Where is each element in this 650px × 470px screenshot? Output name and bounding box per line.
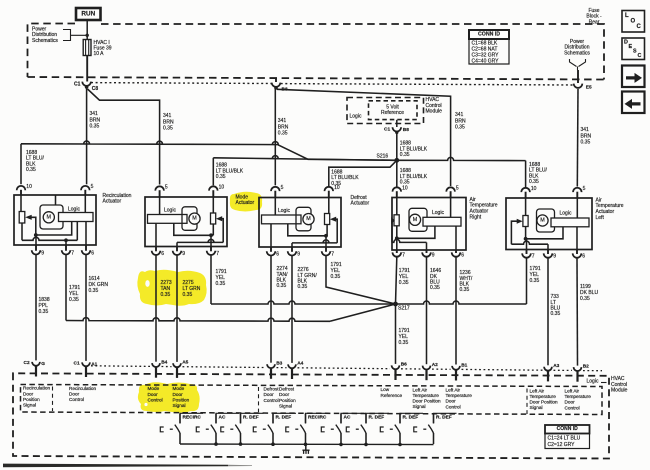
svg-text:Temperature: Temperature xyxy=(565,394,592,399)
svg-text:0.35: 0.35 xyxy=(216,174,226,180)
air temp right pin 10 top xyxy=(393,186,408,198)
svg-text:Logic: Logic xyxy=(587,379,599,385)
label recirculation door control xyxy=(69,386,96,402)
svg-text:Control: Control xyxy=(69,397,84,402)
svg-text:Logic: Logic xyxy=(560,211,572,217)
mode actuator box xyxy=(145,197,227,247)
CONN ID table (fuse block) xyxy=(469,30,509,65)
connector A2 xyxy=(423,362,439,380)
air temp left pin 6 bottom xyxy=(573,250,586,260)
svg-text:Door: Door xyxy=(565,400,576,405)
wire 1791 YEL mode pin7 to S217 (hops) xyxy=(211,256,396,305)
air temp left potentiometer xyxy=(523,198,528,227)
svg-text:BRN: BRN xyxy=(581,133,592,139)
air temp left logic bar xyxy=(551,211,589,227)
svg-text:Door Position: Door Position xyxy=(530,400,559,405)
inner dashed signal-label box xyxy=(21,385,603,415)
label Logic (bottom module) xyxy=(587,379,607,385)
defrost pot low line to logic and pin 7 xyxy=(288,224,328,247)
svg-text:Actuator: Actuator xyxy=(103,199,122,205)
svg-text:9: 9 xyxy=(553,254,556,260)
label 341 BRN 0.35 (recirc) xyxy=(90,111,101,129)
label defrost door position signal xyxy=(279,387,296,409)
svg-text:10: 10 xyxy=(531,186,537,192)
svg-text:R. DEF: R. DEF xyxy=(243,415,259,421)
wire 1688 C1|B8 to S216 xyxy=(396,132,398,160)
label 1791 YEL 0.35 (S217-B6) xyxy=(399,328,410,346)
top dotted connector line (fuse block face) xyxy=(91,83,573,85)
air temp left pin 10 top xyxy=(521,186,536,198)
air temp left motor M xyxy=(537,209,555,232)
recirc actuator pin 5 top xyxy=(81,184,94,195)
label 1791 YEL 0.35 (air temp left) xyxy=(530,266,541,284)
svg-text:Signal: Signal xyxy=(413,404,426,409)
air temp left pin 9 bottom xyxy=(544,250,557,260)
label Recirculation Actuator xyxy=(103,193,132,205)
air temp left control line logic to pin 6 xyxy=(576,227,578,250)
label left air temperature door control (right act) xyxy=(446,387,473,409)
svg-text:C8: C8 xyxy=(92,86,99,92)
air temp right control line logic to pin 6 xyxy=(455,226,457,250)
label 1838 PPL 0.35 xyxy=(39,297,50,315)
wire 1688 S216 to air temp left pin 10 (hop at 341) xyxy=(397,157,526,187)
svg-text:341: 341 xyxy=(455,112,464,118)
svg-text:6: 6 xyxy=(276,252,279,258)
scan artifact bar (bottom left) xyxy=(3,464,252,468)
connector B3 xyxy=(267,361,283,379)
svg-text:0.35: 0.35 xyxy=(90,124,100,130)
svg-text:9: 9 xyxy=(41,251,44,257)
air temp left pot low line to logic and pin 7 xyxy=(524,227,563,250)
svg-text:7: 7 xyxy=(402,253,405,259)
svg-text:Schematics: Schematics xyxy=(564,50,590,56)
HVAC control module outer dashed box (bottom) xyxy=(13,373,609,458)
defrost actuator pin 6 bottom xyxy=(267,247,280,258)
air temp actuator right box xyxy=(392,198,466,251)
connector C2|G xyxy=(24,360,46,376)
defrost actuator box xyxy=(259,198,341,248)
svg-text:A1: A1 xyxy=(91,361,97,367)
air temp left wiper line to pin 9 (hop over pin7 wire) xyxy=(511,241,548,249)
label 1688 LT BLU/BLK 0.35 (air temp right) xyxy=(400,168,428,185)
svg-text:Position: Position xyxy=(173,398,190,403)
label Defrost Actuator xyxy=(351,195,370,207)
air temp left wire pin5 to logic xyxy=(576,198,578,218)
svg-text:Logic: Logic xyxy=(68,207,80,213)
recirc actuator pin 6 bottom xyxy=(82,245,95,257)
svg-text:9: 9 xyxy=(432,253,435,259)
defrost actuator pin 9 bottom xyxy=(288,247,301,258)
label 341 BRN 0.35 (air temp right) xyxy=(455,112,466,130)
label left air temperature door control (left act) xyxy=(565,388,592,410)
svg-text:7: 7 xyxy=(331,252,334,258)
svg-text:Door: Door xyxy=(148,392,159,397)
label 2275 LT GRN 0.35 xyxy=(183,280,201,298)
svg-text:R. DEF: R. DEF xyxy=(276,415,292,421)
RUN box xyxy=(76,8,101,20)
label 1791 YEL 0.35 (recirc) xyxy=(69,285,80,303)
air temp right wire pin5 to logic xyxy=(450,198,452,218)
switch common bus xyxy=(180,442,434,446)
svg-text:5: 5 xyxy=(281,185,284,191)
svg-text:R. DEF: R. DEF xyxy=(369,415,385,421)
air temp right motor M xyxy=(409,208,427,231)
air temp right pin 7 bottom xyxy=(393,250,406,259)
svg-text:Door: Door xyxy=(23,391,34,396)
svg-text:C2: C2 xyxy=(24,360,30,366)
mode wiper signal line to pin 9 (hop over pin7 wire) xyxy=(177,239,223,246)
node S217 xyxy=(393,302,410,312)
svg-text:10: 10 xyxy=(402,186,408,192)
label defrost door control xyxy=(264,387,280,403)
svg-text:Reference: Reference xyxy=(381,110,404,116)
mode potentiometer xyxy=(211,197,216,224)
svg-text:0.35: 0.35 xyxy=(580,296,590,302)
highlight over Mode Door Control / Position Signal labels xyxy=(138,382,200,413)
svg-text:L: L xyxy=(625,13,629,19)
switch R. DEF at x=400 xyxy=(380,413,423,444)
label Power Distribution Schematics (left) xyxy=(32,27,89,44)
connector B8 (fuse block) xyxy=(272,79,288,93)
svg-text:Recirculation: Recirculation xyxy=(69,386,96,391)
S217 branch to air temp left pin7 (hops) xyxy=(396,258,527,304)
connector B6 xyxy=(392,362,408,380)
bottom connector dotted line xyxy=(91,366,602,371)
recirc actuator pin 9 bottom xyxy=(32,245,45,257)
air temp right wiper line to pin 9 (hop over pin7 wire) xyxy=(392,239,427,250)
svg-text:5: 5 xyxy=(91,184,94,190)
wire 1646 DK BLU pin9 to A2 xyxy=(426,257,428,364)
recirc actuator pin 7 bottom xyxy=(62,245,75,257)
svg-text:E5: E5 xyxy=(586,85,592,91)
svg-text:M: M xyxy=(192,216,197,222)
connector E5 xyxy=(574,70,592,91)
label 1791 YEL 0.35 (defrost) xyxy=(331,262,342,280)
recirc motor M xyxy=(40,195,63,229)
svg-text:0.35: 0.35 xyxy=(183,292,193,298)
svg-text:Mode: Mode xyxy=(173,386,185,391)
svg-text:R. DEF: R. DEF xyxy=(436,415,452,421)
svg-text:Rear: Rear xyxy=(589,19,600,25)
switch R. DEF at x=366 xyxy=(346,413,389,444)
wire 1791 YEL defrost pin7 diagonal to S217 xyxy=(326,256,396,304)
label 2276 LT GRN/BLK 0.35 xyxy=(298,267,318,290)
svg-text:Actuator: Actuator xyxy=(236,200,255,206)
air temp right pin 5 top xyxy=(446,186,459,198)
recirc pot low line to logic and pin 7 xyxy=(22,222,77,243)
svg-text:Module: Module xyxy=(611,388,628,394)
svg-text:0.35: 0.35 xyxy=(551,311,561,317)
svg-text:M: M xyxy=(540,218,545,224)
recirc actuator pin 10 top xyxy=(17,184,32,195)
wire 341 BRN E5 to air temp left pin 5 xyxy=(576,89,579,187)
wire 5V ref to connector C1|B8 xyxy=(396,120,398,127)
wire 2276 LT GRN/BLK defrost pin9 to A4 xyxy=(291,256,293,363)
svg-text:0.35: 0.35 xyxy=(399,340,409,346)
svg-text:0.35: 0.35 xyxy=(298,284,308,290)
button DESC xyxy=(622,38,645,60)
svg-text:5: 5 xyxy=(165,185,168,191)
svg-text:Left Air: Left Air xyxy=(446,387,461,392)
defrost potentiometer xyxy=(325,198,330,225)
svg-text:B2: B2 xyxy=(583,363,589,369)
connector C1|B8 xyxy=(384,127,409,134)
svg-text:Door Position: Door Position xyxy=(413,399,442,404)
svg-text:Signal: Signal xyxy=(530,405,543,410)
svg-text:10: 10 xyxy=(334,185,340,191)
power distribution dashed box xyxy=(28,24,605,80)
svg-text:M: M xyxy=(306,216,311,222)
mode actuator pin 6 bottom xyxy=(152,247,165,258)
wire 1688 S216 to mode pin 10 (hop at defrost 341) xyxy=(213,156,396,186)
svg-text:7: 7 xyxy=(71,251,74,257)
mode actuator pin 10 top xyxy=(209,185,224,198)
label low reference xyxy=(381,387,403,398)
svg-text:A2: A2 xyxy=(432,362,438,368)
connector C1|C8 xyxy=(74,81,98,92)
svg-text:Reference: Reference xyxy=(381,393,403,398)
svg-text:Logic: Logic xyxy=(278,208,290,214)
label HVAC Control Module (bottom) xyxy=(611,376,628,394)
svg-text:C4=40 GRY: C4=40 GRY xyxy=(472,59,500,65)
svg-text:D: D xyxy=(624,40,628,46)
connector C1|A1 xyxy=(74,361,98,377)
wire 1236 WHT/BLK pin6 to B1 xyxy=(455,257,457,365)
svg-text:C1: C1 xyxy=(384,127,390,133)
svg-text:0.35: 0.35 xyxy=(399,280,409,286)
svg-text:10 A: 10 A xyxy=(94,51,105,57)
defrost wiper signal line to pin 9 (hop over pin7 wire) xyxy=(292,240,337,247)
wire 1688 S216 to defrost pin 10 xyxy=(329,160,397,186)
label Air Temperature Actuator Right xyxy=(470,197,498,220)
svg-text:341: 341 xyxy=(90,111,99,117)
air temp right pin 6 bottom xyxy=(452,250,465,259)
label 1791 YEL 0.35 (mode) xyxy=(216,269,227,287)
highlight over Mode Actuator label xyxy=(230,192,262,212)
svg-text:CONN ID: CONN ID xyxy=(478,32,500,38)
svg-text:10: 10 xyxy=(219,185,225,191)
svg-text:BRN: BRN xyxy=(278,124,289,130)
defrost actuator pin 10 top xyxy=(325,185,340,198)
svg-text:BRN: BRN xyxy=(163,119,174,125)
connector B2 xyxy=(574,363,590,381)
svg-text:G: G xyxy=(41,361,45,367)
label Power Distribution Schematics (right) + bracket xyxy=(564,39,590,70)
svg-text:Signal: Signal xyxy=(173,403,186,408)
connector B1 xyxy=(452,362,468,380)
svg-text:0.35: 0.35 xyxy=(69,297,79,303)
recirculation actuator box xyxy=(14,195,96,245)
svg-text:B3: B3 xyxy=(276,361,282,367)
svg-text:Left: Left xyxy=(596,215,605,221)
svg-text:M: M xyxy=(413,217,418,223)
wire fuse to connector C1 xyxy=(86,56,88,82)
svg-text:Logic: Logic xyxy=(164,207,176,213)
CONN ID table (bottom module) xyxy=(545,425,590,449)
svg-text:Control: Control xyxy=(565,405,580,410)
recirc wiper signal line to logic and pin 9 xyxy=(34,222,72,246)
svg-text:BRN: BRN xyxy=(455,118,466,124)
svg-text:0.35: 0.35 xyxy=(331,274,341,280)
svg-text:Signal: Signal xyxy=(279,404,292,409)
svg-text:A5: A5 xyxy=(182,360,188,366)
label Mode Actuator xyxy=(236,194,255,206)
svg-text:341: 341 xyxy=(163,113,172,119)
svg-text:C: C xyxy=(638,53,642,59)
wire 2274 TAN/BLK defrost pin6 to B3 xyxy=(270,256,272,363)
switch AC at x=341 xyxy=(321,413,364,444)
mode wire pin5 to logic xyxy=(159,197,161,215)
label left air temperature door position signal (left act) xyxy=(530,388,559,410)
svg-text:AC: AC xyxy=(219,415,226,421)
defrost control line logic to pin 6 xyxy=(270,224,272,247)
mode actuator pin 7 bottom xyxy=(207,247,220,258)
connector A5 xyxy=(173,360,189,378)
recirc pot wiper arrow xyxy=(25,215,36,235)
svg-text:0.35: 0.35 xyxy=(89,288,99,294)
svg-text:Door: Door xyxy=(446,399,457,404)
svg-text:RECIRC: RECIRC xyxy=(183,415,202,421)
svg-text:Actuator: Actuator xyxy=(351,201,370,207)
button arrow left xyxy=(622,92,645,114)
svg-text:Defrost: Defrost xyxy=(264,387,280,392)
connector B4 xyxy=(152,359,168,377)
wire 1688 bus S216 to recirc pin 10 (hops at 341 wires) xyxy=(21,141,397,160)
wire 1199 DK BLU pin6 to B2 xyxy=(576,259,579,366)
recirc logic bar xyxy=(59,207,94,222)
label 341 BRN 0.35 (defrost) xyxy=(278,118,289,136)
wire 1791 YEL air temp right pin7 to S217 xyxy=(396,257,397,304)
air temp actuator left box xyxy=(506,198,592,250)
air temp right pot wiper arrow xyxy=(392,218,395,242)
svg-text:O: O xyxy=(631,18,636,24)
svg-text:Low: Low xyxy=(381,387,390,392)
defrost actuator pin 7 bottom xyxy=(322,247,335,258)
label Logic (module top) xyxy=(350,114,362,120)
wire 733 LT BLU pin9 to A3 xyxy=(547,258,549,365)
svg-text:C1: C1 xyxy=(74,361,80,367)
node S216 xyxy=(377,153,400,162)
wire jog B8 to air temp right pin 5 xyxy=(277,89,451,186)
air temp left pot wiper arrow xyxy=(511,219,522,245)
svg-text:Module: Module xyxy=(426,109,443,115)
switch R. DEF at x=273 xyxy=(253,413,296,444)
svg-text:6: 6 xyxy=(461,253,464,259)
svg-text:A4: A4 xyxy=(297,361,303,367)
svg-text:0.35: 0.35 xyxy=(455,125,465,131)
svg-text:0.35: 0.35 xyxy=(278,131,288,137)
svg-text:C1=24 LT BLU: C1=24 LT BLU xyxy=(548,436,581,442)
air temp right pin 9 bottom xyxy=(422,250,435,259)
svg-text:5: 5 xyxy=(456,186,459,192)
svg-text:B8: B8 xyxy=(403,127,409,133)
mode motor M xyxy=(182,207,200,231)
svg-text:0.35: 0.35 xyxy=(277,283,287,289)
mode pot low line to logic and pin 7 xyxy=(174,223,214,246)
switch R. DEF at x=240.5 xyxy=(221,413,264,444)
svg-text:Schematics: Schematics xyxy=(32,38,58,44)
label 1199 DK BLU 0.35 xyxy=(580,284,598,302)
wire RUN to fuse xyxy=(86,20,88,40)
label 2274 TAN/BLK 0.35 xyxy=(277,266,289,289)
5 Volt Reference dashed box xyxy=(369,101,418,120)
connector A4 xyxy=(288,361,304,379)
label HVAC Control Module (top) xyxy=(426,97,443,115)
svg-text:341: 341 xyxy=(581,127,590,133)
svg-text:Defrost: Defrost xyxy=(279,387,295,392)
defrost logic bar xyxy=(262,208,302,224)
svg-text:B4: B4 xyxy=(161,359,167,365)
air temp right logic bar xyxy=(423,210,461,226)
svg-text:7: 7 xyxy=(532,254,535,260)
label 1791 YEL 0.35 (air temp right) xyxy=(399,268,410,286)
svg-text:0.35: 0.35 xyxy=(460,287,470,293)
svg-text:9: 9 xyxy=(182,251,185,257)
label mode door position signal xyxy=(173,386,190,408)
air temp right pot low line to logic and pin 7 xyxy=(395,226,435,250)
label 2273 TAN 0.35 xyxy=(161,280,172,298)
label 341 BRN 0.35 (mode) xyxy=(163,113,174,131)
svg-text:0.35: 0.35 xyxy=(400,152,410,158)
recirc actuator potentiometer xyxy=(19,195,25,223)
recirc control line logic to pin 6 xyxy=(85,222,87,246)
recirc wire pin5 to logic xyxy=(84,195,86,213)
svg-text:C2=12 GRY: C2=12 GRY xyxy=(548,442,576,448)
air temp left pin 5 top xyxy=(573,186,586,198)
svg-text:0.35: 0.35 xyxy=(163,126,173,132)
mode control line logic to pin 6 xyxy=(155,223,157,246)
air temp left pin 7 bottom xyxy=(522,250,535,260)
air temp right potentiometer xyxy=(394,198,399,226)
svg-text:6: 6 xyxy=(91,251,94,257)
label 1614 DK GRN 0.35 xyxy=(89,276,109,294)
label 341 BRN 0.35 (air temp left) xyxy=(581,127,592,145)
label 733 LT BLU 0.35 xyxy=(551,294,561,317)
label 1688 LT BLU/BLK 0.35 (recirc) xyxy=(26,150,44,173)
highlight over 2273/2275 wire labels xyxy=(137,270,206,306)
mode actuator pin 5 top xyxy=(155,185,168,198)
svg-text:RUN: RUN xyxy=(81,10,95,17)
svg-text:B6: B6 xyxy=(401,362,407,368)
mode pot wiper arrow xyxy=(216,216,223,242)
label 1688 LT BLU/BLK 0.35 (B8-S216) xyxy=(400,141,428,158)
svg-text:E: E xyxy=(629,44,633,50)
label recirculation door position signal xyxy=(23,386,50,408)
wire jog C8 to mode pin 5 xyxy=(88,89,160,185)
svg-text:7: 7 xyxy=(216,251,219,257)
svg-text:10: 10 xyxy=(26,184,32,190)
svg-text:R. DEF: R. DEF xyxy=(403,415,419,421)
svg-text:Left Air: Left Air xyxy=(565,388,580,393)
label 1688 LT BLU/BLK 0.35 (defrost) xyxy=(331,169,359,186)
svg-text:Control: Control xyxy=(148,398,163,403)
svg-text:Logic: Logic xyxy=(350,114,362,120)
svg-text:Temperature: Temperature xyxy=(413,393,440,398)
svg-text:RECIRC: RECIRC xyxy=(308,415,327,421)
svg-text:0.35: 0.35 xyxy=(161,292,171,298)
svg-text:Left Air: Left Air xyxy=(413,387,428,392)
switch AC at x=216 xyxy=(196,413,239,444)
svg-text:Position: Position xyxy=(279,398,296,403)
svg-text:Position: Position xyxy=(23,397,40,402)
ground G305 chassis ground xyxy=(302,444,309,454)
wire 2273 TAN mode pin6 to B4 xyxy=(155,256,157,362)
defrost wire pin5 to logic xyxy=(274,198,276,216)
svg-text:6: 6 xyxy=(161,251,164,257)
inner box divider dashes xyxy=(53,387,528,415)
svg-text:341: 341 xyxy=(278,118,287,124)
svg-text:5: 5 xyxy=(583,186,586,192)
